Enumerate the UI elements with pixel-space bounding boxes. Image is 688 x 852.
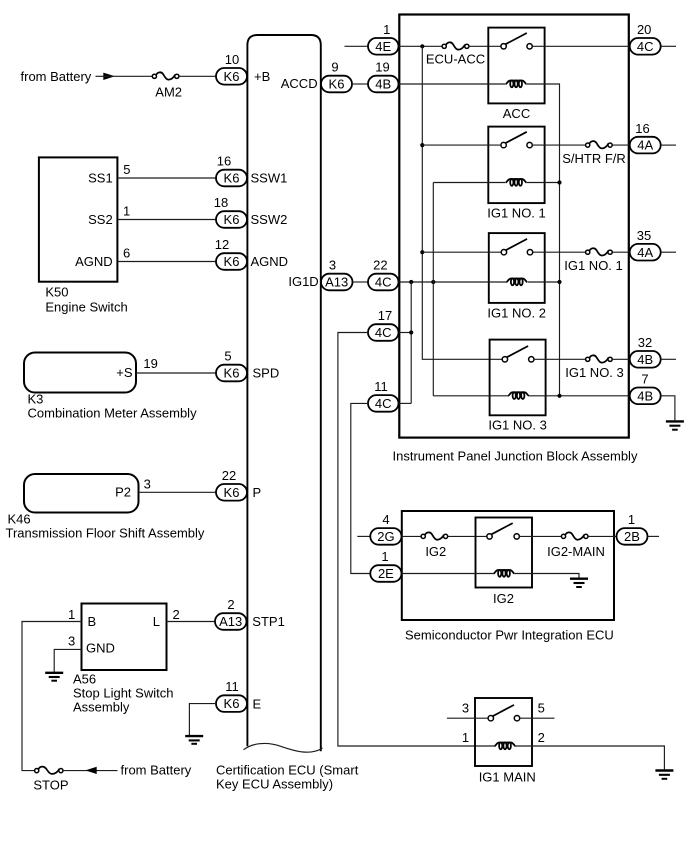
pin number 19 (4B)	[375, 60, 389, 75]
svg-text:Key ECU Assembly): Key ECU Assembly)	[216, 777, 333, 792]
svg-text:IG1 NO. 1: IG1 NO. 1	[564, 258, 623, 273]
wire 2G to fuse IG2	[402, 535, 422, 537]
pin number 35	[637, 228, 651, 243]
node on 4E bus at IG1 NO.2 switch	[420, 250, 424, 254]
pin number 3 (A56 GND)	[68, 634, 75, 649]
svg-text:IG1 NO. 3: IG1 NO. 3	[565, 365, 624, 380]
K46 port label P2	[115, 485, 131, 500]
wire stub right of 4C pin 20	[661, 45, 676, 47]
label: IG2 (relay)	[493, 591, 514, 606]
pin number 11 (4C)	[374, 379, 388, 394]
wire +S to K6 pin 5	[136, 372, 216, 374]
svg-text:K6: K6	[224, 171, 240, 186]
svg-text:4: 4	[382, 512, 389, 527]
pin number 5 (K50 SS1)	[123, 162, 130, 177]
wire IG1D A13 to 4C pin 22	[353, 281, 369, 283]
svg-text:SS1: SS1	[88, 171, 113, 186]
svg-text:4B: 4B	[637, 352, 653, 367]
svg-text:AGND: AGND	[251, 254, 289, 269]
node on 4E line (x422)	[420, 44, 424, 48]
svg-text:P2: P2	[115, 485, 131, 500]
svg-text:11: 11	[374, 379, 388, 394]
A56 port label B	[88, 614, 97, 629]
label: from Battery (bottom)	[121, 763, 192, 778]
label: IG1 NO. 2 (relay)	[487, 305, 546, 320]
svg-text:AM2: AM2	[155, 84, 182, 99]
svg-text:1: 1	[628, 512, 635, 527]
engine switch K50	[39, 157, 118, 281]
pin number 2	[227, 597, 234, 612]
label: K50 / Engine Switch	[45, 285, 127, 315]
wire AM2 to connector K6 pin 10	[179, 75, 216, 77]
connector 4C pin 17	[368, 324, 399, 341]
transmission floor shift assembly K46	[24, 474, 139, 513]
svg-text:5: 5	[538, 701, 545, 716]
svg-text:1: 1	[383, 22, 390, 37]
svg-text:7: 7	[641, 372, 648, 387]
svg-text:35: 35	[637, 228, 651, 243]
value label IG2-MAIN	[547, 544, 605, 559]
port label AGND	[251, 254, 289, 269]
pin number 32	[638, 335, 652, 350]
pin number 22 (4C)	[373, 258, 387, 273]
svg-text:IG1D: IG1D	[288, 274, 318, 289]
connector 2B pin 1	[617, 528, 648, 545]
wire IG1D feed to IG1 NO.3 coil	[433, 395, 508, 397]
svg-text:32: 32	[638, 335, 652, 350]
wire STOP fuse to battery arrow	[63, 770, 117, 772]
svg-text:2: 2	[173, 607, 180, 622]
svg-text:9: 9	[331, 60, 338, 75]
svg-text:4E: 4E	[375, 39, 391, 54]
svg-text:from Battery: from Battery	[21, 69, 92, 84]
svg-text:K46: K46	[8, 511, 31, 526]
wire A56 L to A13 pin 2	[167, 621, 216, 623]
svg-text:6: 6	[123, 246, 130, 261]
pin number 18	[214, 195, 228, 210]
connector A13 pin 3 (IG1D)	[321, 274, 353, 291]
pin number 1 (2B)	[628, 512, 635, 527]
svg-text:A56: A56	[73, 671, 96, 686]
port label SSW1	[251, 171, 288, 186]
connector 4C pin 11	[368, 395, 399, 412]
svg-text:19: 19	[143, 356, 157, 371]
svg-text:SSW1: SSW1	[251, 171, 288, 186]
svg-text:K6: K6	[224, 696, 240, 711]
label: from Battery (top)	[21, 69, 92, 84]
svg-text:19: 19	[375, 60, 389, 75]
wire 4B pin19 to ACC coil	[399, 83, 506, 85]
label: K46 / Transmission Floor Shift Assembly	[6, 511, 205, 540]
wire 4C pin 17 into block	[399, 332, 412, 334]
svg-text:11: 11	[225, 679, 239, 694]
wire IG1 NO.1 coil to return bus	[527, 182, 560, 184]
ground (E terminal)	[185, 736, 203, 744]
pin number 11	[225, 679, 239, 694]
wire SS2 to K6 pin 18	[117, 219, 216, 221]
pin number 3	[329, 258, 336, 273]
wire IG1 NO.2 coil to return bus	[528, 281, 560, 283]
relay IG1 NO. 3	[490, 340, 546, 416]
value label IG2 (fuse)	[425, 544, 446, 559]
connector 2G pin 4	[370, 528, 401, 545]
svg-text:2B: 2B	[624, 529, 640, 544]
label: K3 / Combination Meter Assembly	[28, 391, 198, 420]
value label ECU-ACC	[426, 52, 485, 67]
pin number 1 (2E)	[381, 549, 388, 564]
wire E to ground	[189, 704, 216, 735]
fuse IG2-MAIN	[561, 532, 588, 539]
fuse S/HTR F/R	[586, 141, 613, 148]
svg-text:STOP: STOP	[33, 777, 68, 792]
port label SPD	[253, 366, 280, 381]
label: ACC	[503, 106, 530, 121]
wire 4E to ECU-ACC fuse	[399, 45, 443, 47]
wire SS1 to K6 pin 16	[117, 177, 216, 179]
svg-text:20: 20	[637, 22, 651, 37]
relay ACC	[488, 28, 544, 104]
pin number 16 (4A)	[635, 121, 649, 136]
pin number 10	[225, 52, 239, 67]
connector K6 pin 18 (SSW2)	[216, 211, 247, 228]
wire IG1 NO.3 coil to 4B pin 7	[529, 395, 630, 397]
svg-text:IG2: IG2	[493, 591, 514, 606]
svg-text:B: B	[88, 614, 97, 629]
connector 4A pin 16	[630, 137, 661, 154]
wire stub right of 4B pin 32	[661, 358, 676, 360]
svg-text:4B: 4B	[637, 388, 653, 403]
pin number 6 (K50 AGND)	[123, 246, 130, 261]
svg-text:+B: +B	[254, 69, 270, 84]
connector 4A pin 35	[630, 244, 661, 261]
node coil return bus at IG1 NO.3	[557, 394, 561, 398]
svg-text:P: P	[253, 485, 262, 500]
pin number 12	[215, 237, 229, 252]
svg-text:Transmission Floor Shift Assem: Transmission Floor Shift Assembly	[6, 525, 205, 540]
connector A13 pin 2 (STP1)	[215, 613, 247, 630]
wire 4C pin22 to IG1 NO.2 coil	[399, 281, 507, 283]
vertical IG1D coil feed (x433)	[432, 183, 434, 396]
arrow from battery (points left, bottom)	[85, 767, 96, 774]
svg-text:AGND: AGND	[75, 254, 113, 269]
pin number 1 (4E)	[383, 22, 390, 37]
node on IG1D wire (x433)	[431, 280, 435, 284]
ground (IG1 MAIN)	[655, 771, 673, 779]
label: Semiconductor Pwr Integration ECU	[405, 628, 614, 643]
wire stub right of 4A pin 16	[661, 144, 676, 146]
value label S/HTR F/R	[562, 151, 626, 166]
svg-text:5: 5	[224, 349, 231, 364]
pin number 3 (K46 P2)	[144, 477, 151, 492]
pin number 1 (IG1 MAIN)	[462, 730, 469, 745]
value label IG1 NO. 3 (fuse)	[565, 365, 624, 380]
connector K6 pin 5 (SPD)	[216, 365, 247, 382]
pin number 9	[331, 60, 338, 75]
wire 2E to IG2 coil	[402, 573, 494, 575]
wire IG2 relay switch to fuse IG2-MAIN	[519, 535, 561, 537]
pin number 3 (IG1 MAIN)	[462, 701, 469, 716]
pin number 22	[222, 468, 236, 483]
connector 4C pin 22	[368, 274, 399, 291]
label: Instrument Panel Junction Block Assembly	[393, 449, 638, 464]
wire fuse to 4A pin 16	[612, 144, 629, 146]
wire stub into 2G pin 4	[357, 535, 370, 537]
wire ACC coil to coil-return bus	[527, 84, 560, 396]
label: IG1 MAIN	[479, 769, 536, 784]
svg-text:Instrument Panel Junction Bloc: Instrument Panel Junction Block Assembly	[393, 449, 638, 464]
ground (IG2 coil)	[570, 579, 588, 587]
svg-text:17: 17	[378, 308, 392, 323]
wire P2 to K6 pin 22	[139, 491, 217, 493]
svg-text:K3: K3	[28, 391, 44, 406]
svg-text:10: 10	[225, 52, 239, 67]
wire 4C pin 11 into block	[399, 402, 412, 404]
certification ECU break wave	[244, 743, 323, 752]
wire fuse IG2-MAIN to 2B pin 1	[588, 535, 616, 537]
junction block box	[399, 15, 629, 438]
svg-text:IG2-MAIN: IG2-MAIN	[547, 544, 605, 559]
label: IG1 NO. 3 (relay)	[488, 418, 547, 433]
K50 port label SS2	[88, 212, 113, 227]
pin number 5 (IG1 MAIN)	[538, 701, 545, 716]
wire IG1 NO.1 switch to fuse S/HTR F/R	[532, 144, 585, 146]
svg-text:K50: K50	[45, 285, 68, 300]
svg-text:K6: K6	[224, 69, 240, 84]
arrow from battery (points right)	[103, 73, 115, 80]
svg-text:Semiconductor Pwr Integration: Semiconductor Pwr Integration ECU	[405, 628, 614, 643]
wire stub into 4E pin 1	[345, 45, 369, 47]
wire 4B pin 7 to ground	[661, 396, 675, 421]
svg-text:E: E	[253, 696, 262, 711]
svg-text:4A: 4A	[637, 245, 653, 260]
vertical bus from 4E node to IG1 NO.3 switch	[422, 46, 502, 359]
svg-text:from Battery: from Battery	[121, 763, 192, 778]
pin number 20	[637, 22, 651, 37]
node on 4E bus at IG1 NO.1 switch	[420, 143, 424, 147]
svg-text:1: 1	[68, 607, 75, 622]
port label SSW2	[251, 212, 288, 227]
svg-text:3: 3	[68, 634, 75, 649]
svg-text:SPD: SPD	[253, 366, 280, 381]
svg-text:Assembly: Assembly	[73, 699, 130, 714]
semiconductor pwr integration ECU box	[402, 511, 614, 620]
svg-text:3: 3	[144, 477, 151, 492]
svg-text:1: 1	[123, 204, 130, 219]
wire IG1 MAIN coil pin 2 to ground	[514, 746, 664, 769]
pin number 7	[641, 372, 648, 387]
node coil return bus at IG1 NO.2	[557, 280, 561, 284]
fuse IG1 NO. 1	[586, 248, 613, 255]
A56 port label L	[153, 614, 160, 629]
K50 port label AGND	[75, 254, 113, 269]
wire AGND to K6 pin 12	[117, 261, 216, 263]
svg-text:SSW2: SSW2	[251, 212, 288, 227]
wire battery to fuse AM2	[96, 75, 153, 77]
svg-text:Engine Switch: Engine Switch	[45, 299, 127, 314]
relay IG1 NO. 1	[488, 127, 544, 204]
node on IG1D wire (x411)	[409, 280, 413, 284]
svg-text:4A: 4A	[637, 138, 653, 153]
wire stub IG1 MAIN pin 5	[520, 717, 555, 719]
wire bus to IG1 NO.1 switch	[422, 144, 501, 146]
svg-text:K6: K6	[224, 212, 240, 227]
relay IG1 MAIN	[475, 698, 532, 766]
relay IG2	[476, 518, 533, 588]
connector K6 pin 10 (+B)	[216, 68, 247, 85]
svg-text:L: L	[153, 614, 160, 629]
wire fuse IG2 to relay IG2 switch	[448, 535, 487, 537]
wire ACC switch to 4C pin 20	[532, 45, 630, 47]
port label IG1D	[288, 274, 318, 289]
pin number 19 (K3 +S)	[143, 356, 157, 371]
svg-text:4B: 4B	[375, 77, 391, 92]
connector K6 pin 11 (E)	[216, 695, 247, 712]
fuse ECU-ACC	[442, 42, 469, 49]
A56 port label GND	[86, 641, 115, 656]
fuse STOP	[35, 767, 63, 774]
K3 port label +S	[116, 365, 133, 380]
svg-text:IG1 NO. 3: IG1 NO. 3	[488, 418, 547, 433]
wire IG1 NO.2 switch to fuse IG1 NO.1	[533, 251, 586, 253]
svg-text:GND: GND	[86, 641, 115, 656]
connector K6 pin 9 (ACCD)	[321, 76, 352, 93]
pin number 17 (4C)	[378, 308, 392, 323]
svg-text:16: 16	[635, 121, 649, 136]
wire fuse to 4B pin 32	[612, 358, 629, 360]
node coil return bus at IG1 NO.1	[557, 180, 561, 184]
connector 2E pin 1	[370, 565, 401, 582]
svg-text:IG1 NO. 2: IG1 NO. 2	[487, 305, 546, 320]
value label AM2	[155, 84, 182, 99]
svg-text:A13: A13	[219, 614, 242, 629]
svg-text:IG1 MAIN: IG1 MAIN	[479, 769, 536, 784]
connector K6 pin 22 (P)	[216, 484, 247, 501]
connector 4B pin 19	[368, 76, 399, 93]
svg-text:2: 2	[227, 597, 234, 612]
connector K6 pin 12 (AGND)	[216, 253, 247, 270]
svg-text:SS2: SS2	[88, 212, 113, 227]
svg-text:ECU-ACC: ECU-ACC	[426, 52, 485, 67]
svg-text:1: 1	[462, 730, 469, 745]
port label ACCD	[281, 76, 318, 91]
svg-text:A13: A13	[325, 275, 348, 290]
ground (A56)	[45, 673, 63, 681]
stop light switch assembly A56	[82, 604, 167, 671]
combination meter assembly K3	[24, 353, 136, 393]
wire 4C pin 17 to IG1 MAIN coil (down left side)	[338, 333, 496, 747]
connector 4B pin 7	[630, 388, 661, 405]
certification ECU body (rounded top, broken bottom)	[247, 35, 320, 751]
svg-text:IG2: IG2	[425, 544, 446, 559]
svg-text:ACCD: ACCD	[281, 76, 318, 91]
svg-text:22: 22	[373, 258, 387, 273]
svg-text:3: 3	[462, 701, 469, 716]
svg-text:2E: 2E	[378, 566, 394, 581]
svg-text:4C: 4C	[637, 39, 654, 54]
port label +B	[254, 69, 270, 84]
connector 4C pin 20	[630, 38, 661, 55]
value label IG1 NO. 1 (fuse)	[564, 258, 623, 273]
svg-text:K6: K6	[224, 485, 240, 500]
wire A56 GND to ground	[54, 649, 81, 671]
svg-text:22: 22	[222, 468, 236, 483]
svg-text:1: 1	[381, 549, 388, 564]
node at 4C17 junction	[409, 330, 413, 334]
wire stub right of 4A pin 35	[661, 251, 676, 253]
wire ACCD K6 to 4B pin 19	[352, 83, 368, 85]
wire 4C pin 11 to 2E (down)	[351, 403, 371, 573]
svg-text:3: 3	[329, 258, 336, 273]
svg-text:5: 5	[123, 162, 130, 177]
svg-text:K6: K6	[224, 366, 240, 381]
svg-text:4C: 4C	[375, 396, 392, 411]
pin number 2 (A56 L)	[173, 607, 180, 622]
svg-text:Combination Meter Assembly: Combination Meter Assembly	[28, 405, 198, 420]
svg-text:4C: 4C	[375, 275, 392, 290]
label: A56 / Stop Light Switch / Assembly	[73, 671, 173, 714]
wire bus to IG1 NO.2 switch	[422, 251, 501, 253]
label: Certification ECU (Smart Key ECU Assembly)	[216, 763, 359, 792]
svg-text:+S: +S	[116, 365, 133, 380]
svg-text:2: 2	[538, 730, 545, 745]
pin number 2 (IG1 MAIN)	[538, 730, 545, 745]
svg-text:12: 12	[215, 237, 229, 252]
pin number 1 (K50 SS2)	[123, 204, 130, 219]
connector 4E pin 1	[368, 38, 399, 55]
svg-text:18: 18	[214, 195, 228, 210]
relay IG1 NO. 2	[489, 233, 545, 303]
fuse IG2	[421, 532, 448, 539]
svg-text:Stop Light Switch: Stop Light Switch	[73, 685, 173, 700]
svg-text:4C: 4C	[375, 325, 392, 340]
pin number 1 (A56 B)	[68, 607, 75, 622]
label: IG1 NO. 1 (relay)	[487, 206, 546, 221]
port label E	[253, 696, 262, 711]
port label P	[253, 485, 262, 500]
wire IG1D bus to IG1 NO.1 coil	[433, 182, 505, 184]
connector 4B pin 32	[630, 351, 661, 368]
K50 port label SS1	[88, 171, 113, 186]
svg-text:S/HTR F/R: S/HTR F/R	[562, 151, 626, 166]
svg-text:IG1 NO. 1: IG1 NO. 1	[487, 206, 546, 221]
svg-text:2G: 2G	[377, 529, 394, 544]
svg-text:16: 16	[217, 154, 231, 169]
svg-text:Certification ECU (Smart: Certification ECU (Smart	[216, 763, 359, 778]
pin number 16	[217, 154, 231, 169]
fuse AM2	[152, 72, 179, 79]
connector K6 pin 16 (SSW1)	[216, 170, 247, 187]
pin number 5	[224, 349, 231, 364]
fuse IG1 NO. 3	[586, 355, 613, 362]
wire stub right of 2B	[648, 535, 660, 537]
port label STP1	[252, 614, 285, 629]
value label STOP	[33, 777, 68, 792]
ground (4B pin 7)	[666, 421, 684, 429]
wire stub IG1 MAIN pin 3	[447, 717, 488, 719]
wire A56 pin1 to STOP fuse (left and down)	[22, 622, 82, 771]
pin number 4 (2G)	[382, 512, 389, 527]
svg-text:STP1: STP1	[252, 614, 285, 629]
wire ECU-ACC fuse to ACC relay switch	[469, 45, 501, 47]
vertical link 4C22-4C17-4C11	[410, 282, 412, 403]
wire IG1 NO.3 switch to fuse IG1 NO.3	[534, 358, 586, 360]
svg-text:ACC: ACC	[503, 106, 530, 121]
svg-text:K6: K6	[224, 254, 240, 269]
wire IG2 coil to ground	[515, 574, 579, 578]
wire fuse to 4A pin 35	[612, 251, 629, 253]
svg-text:K6: K6	[329, 77, 345, 92]
